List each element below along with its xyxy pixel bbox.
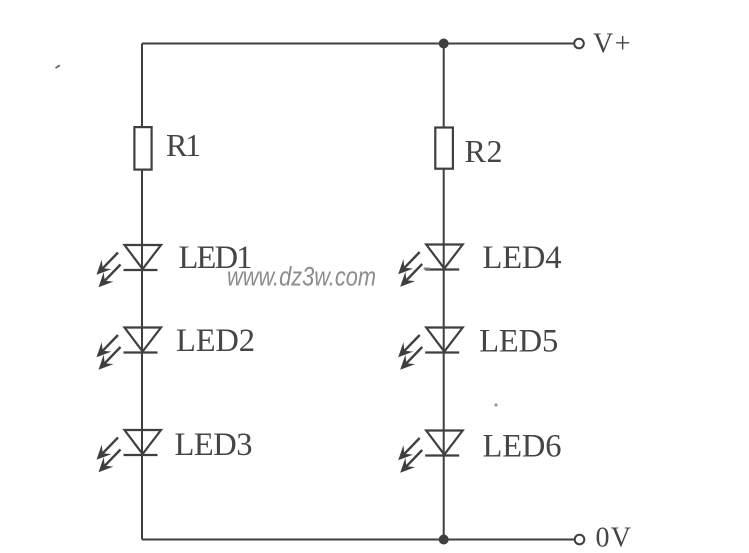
terminal V+ (open circle) xyxy=(574,39,584,49)
wire: right branch vertical xyxy=(443,44,445,540)
svg-text:LED3: LED3 xyxy=(175,427,253,463)
node: junction dot bottom rail / right branch xyxy=(439,535,449,545)
svg-text:LED2: LED2 xyxy=(176,323,255,359)
svg-text:R1: R1 xyxy=(166,127,201,163)
terminal 0V (open circle) xyxy=(575,535,585,545)
scan dash right of watermark xyxy=(424,268,431,270)
LED4 symbol xyxy=(398,245,463,287)
scan speck near LED6 top xyxy=(494,403,497,406)
wire: bottom rail from bottom-left corner to 0V terminal xyxy=(142,539,574,541)
svg-text:R2: R2 xyxy=(465,133,503,169)
LED6 symbol xyxy=(398,431,463,473)
svg-text:LED6: LED6 xyxy=(483,429,562,465)
svg-text:V+: V+ xyxy=(593,29,631,60)
wire: left branch vertical xyxy=(141,44,143,540)
svg-text:www.dz3w.com: www.dz3w.com xyxy=(227,262,376,292)
LED3 symbol xyxy=(97,430,162,472)
wire: top rail from top-left corner to V+ terminal xyxy=(142,43,574,45)
svg-text:0V: 0V xyxy=(596,523,632,553)
node: junction dot top rail / right branch xyxy=(439,39,449,49)
LED5 symbol xyxy=(398,328,463,370)
svg-text:LED5: LED5 xyxy=(479,324,558,360)
svg-text:LED4: LED4 xyxy=(483,240,562,276)
LED2 symbol xyxy=(97,328,162,370)
LED1 symbol xyxy=(97,245,162,287)
resistor R1 xyxy=(134,127,151,170)
resistor R2 xyxy=(435,128,453,169)
scan speck top-left xyxy=(55,65,61,69)
